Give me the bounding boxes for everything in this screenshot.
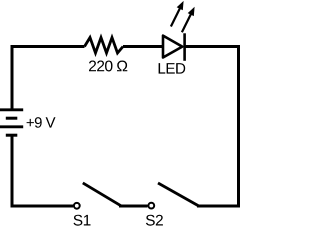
wire battery negative down and along bottom to switch S1 [12, 135, 73, 206]
LED cathode bar [183, 33, 186, 61]
battery BT1 positive long plate (top cell) [0, 108, 23, 111]
battery short negative plate (top cell) [6, 117, 17, 120]
wire top-left and left side down to battery positive [12, 47, 85, 110]
switch S1 terminal circle [74, 203, 80, 209]
battery voltage label +9 V [27, 117, 56, 128]
battery long positive plate (bottom cell) [0, 125, 23, 128]
wire between switch S1 and switch S2 [119, 205, 148, 208]
switch S1 label [74, 215, 91, 226]
wire resistor to LED anode [123, 45, 163, 48]
resistor value label 220 ohm [89, 61, 127, 72]
switch S2 label [146, 215, 163, 226]
battery short negative plate (bottom cell) [6, 134, 17, 137]
wire LED cathode to right side, down right side and bottom-right to switch S2 [185, 47, 239, 207]
resistor 220 ohm [85, 38, 124, 54]
LED label [159, 63, 186, 74]
switch S1 blade [83, 183, 121, 206]
LED D1 triangle (anode) [163, 36, 182, 58]
switch S2 terminal circle [148, 203, 154, 209]
switch S2 blade [158, 183, 199, 206]
LED light ray arrow 1 [171, 1, 184, 27]
LED light ray arrow 2 [182, 7, 195, 33]
